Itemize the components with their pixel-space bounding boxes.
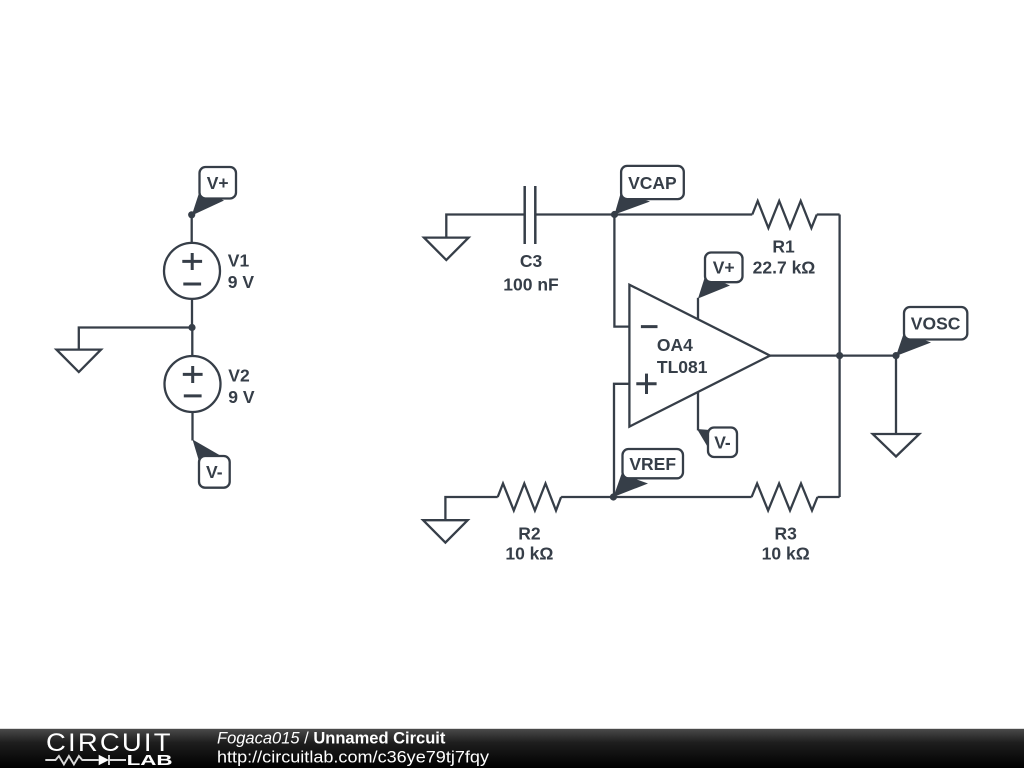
svg-text:R2: R2 [518,524,541,544]
svg-text:VCAP: VCAP [628,173,677,193]
svg-text:V+: V+ [713,258,735,278]
svg-text:VREF: VREF [629,454,676,474]
wire feedback vertical column [838,215,840,498]
net flag V+ (left) [192,167,236,216]
wire R1 right to feedback column [817,213,840,215]
svg-text:LAB: LAB [127,752,173,768]
wire R2 right to VREF node [561,496,613,498]
svg-text:Fogaca015 / Unnamed Circuit: Fogaca015 / Unnamed Circuit [217,730,446,748]
pin V+ stub [697,298,699,320]
wire junction to left ground [79,328,192,350]
op-amp OA4 TL081 [629,285,770,431]
wire V2 bottom to V- flag [191,412,193,441]
svg-text:R1: R1 [772,237,795,257]
svg-text:10 kΩ: 10 kΩ [762,544,810,564]
svg-text:V+: V+ [207,173,229,193]
svg-text:TL081: TL081 [657,357,708,377]
ground (left circuit) [57,350,102,372]
net flag VREF [613,449,683,497]
svg-text:9 V: 9 V [228,272,255,292]
net flag V+ (op-amp) [698,253,743,299]
wire VOSC node down to ground [895,356,897,434]
wire noninverting input down to VREF node [614,384,629,497]
ground (C3) [424,238,469,260]
svg-text:OA4: OA4 [657,335,693,355]
node VOSC [892,352,899,359]
ground (VOSC) [873,434,920,457]
wire opamp output to VOSC node [770,354,896,356]
wire VREF node to R3 left [613,496,751,498]
wire V1 bottom to junction [191,299,193,328]
svg-text:V1: V1 [228,250,250,270]
wire VCAP node down to inverting input [614,215,628,327]
wire VCAP node to R1 left [615,213,753,215]
wire R2 ground stub [445,497,497,520]
resistor R2 10 kOhm [498,484,561,564]
wire V+ flag to V1 top [191,215,193,243]
voltage source V2 [165,356,255,412]
wire C3 ground stub [446,215,524,238]
svg-text:VOSC: VOSC [911,314,961,334]
svg-text:V-: V- [206,462,223,482]
node dot V+ terminal [188,211,195,218]
voltage source V1 [164,243,254,299]
svg-text:9 V: 9 V [228,387,255,407]
svg-text:http://circuitlab.com/c36ye79t: http://circuitlab.com/c36ye79tj7fqy [217,747,490,766]
net flag V- (left) [193,440,230,488]
pin V- stub [697,392,699,431]
capacitor C3 [503,186,559,294]
svg-text:22.7 kΩ: 22.7 kΩ [753,258,816,278]
svg-text:V2: V2 [228,365,250,385]
node output/feedback junction [836,352,843,359]
node VCAP [611,211,618,218]
CircuitLab logo resistor-diode glyph [45,755,126,765]
node VREF [610,493,617,500]
resistor R1 22.7 kOhm [752,201,817,278]
node junction V1/V2/ground [188,324,195,331]
svg-text:R3: R3 [775,524,798,544]
svg-text:10 kΩ: 10 kΩ [505,544,553,564]
svg-text:100 nF: 100 nF [503,274,559,294]
net flag VOSC [896,307,967,356]
svg-text:C3: C3 [520,251,543,271]
resistor R3 10 kOhm [752,484,818,564]
wire C3 right plate to VCAP node [535,213,614,215]
wire R3 right to feedback column [818,496,840,498]
wire junction to V2 top [191,328,193,357]
svg-text:V-: V- [714,433,731,453]
ground (R2) [423,520,468,542]
net flag VCAP [615,166,684,215]
net flag V- (op-amp) [697,428,737,458]
